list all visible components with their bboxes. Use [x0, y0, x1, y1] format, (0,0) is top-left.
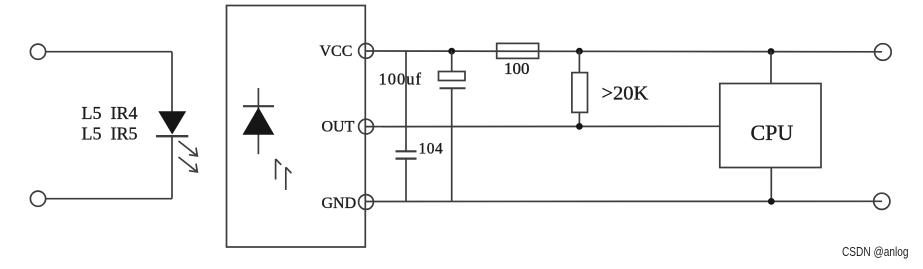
- light reception arrows of D2: [276, 159, 292, 190]
- wire CPU to GND rail: [770, 168, 772, 202]
- terminal J4 bottom-right: [874, 193, 890, 209]
- light emission arrows of D1: [179, 141, 198, 172]
- GND rail wire: [366, 200, 882, 202]
- junction dot at CPU/VCC: [768, 48, 775, 55]
- OUT rail wire: [366, 125, 720, 127]
- terminal J1 top-left: [30, 44, 45, 59]
- capacitor C1 100uf (electrolytic): [379, 51, 466, 201]
- junction dot at R2/VCC: [576, 48, 583, 55]
- wire LED anode (vertical): [171, 52, 173, 112]
- photodiode D2 inside module: [243, 88, 275, 154]
- pin GND: [322, 195, 374, 212]
- svg-text:L5 IR5: L5 IR5: [82, 124, 138, 144]
- svg-text:CSDN @anlog: CSDN @anlog: [842, 244, 909, 259]
- junction dot at R2/OUT: [576, 123, 583, 130]
- svg-text:VCC: VCC: [320, 43, 353, 60]
- svg-text:CPU: CPU: [751, 120, 794, 145]
- resistor R2 >20K: [572, 51, 649, 126]
- svg-text:100uf: 100uf: [379, 70, 423, 89]
- terminal J2 bottom-left: [30, 191, 45, 206]
- wire CPU to VCC rail: [770, 52, 772, 84]
- capacitor C2 104: [396, 141, 444, 202]
- svg-text:104: 104: [419, 141, 444, 158]
- wire J1 to LED branch (horizontal): [46, 51, 172, 53]
- junction dot at CPU/GND: [768, 198, 775, 205]
- pin OUT: [322, 119, 374, 136]
- LED D1 (IR emitter): [156, 111, 188, 136]
- svg-text:OUT: OUT: [322, 119, 355, 136]
- svg-text:GND: GND: [322, 195, 357, 212]
- junction dot at C1/VCC: [448, 48, 455, 55]
- receiver module U2 body: [227, 6, 366, 248]
- wire LED cathode down (vertical): [171, 136, 173, 199]
- resistor R1 100: [497, 43, 539, 78]
- svg-text:>20K: >20K: [602, 83, 649, 105]
- wire branch to C2 (x=406): [405, 51, 407, 151]
- svg-text:L5 IR4: L5 IR4: [82, 103, 138, 123]
- svg-text:100: 100: [504, 59, 530, 78]
- VCC rail wire: [366, 50, 882, 53]
- pin VCC: [320, 43, 374, 60]
- label L5 IR4 / L5 IR5: [82, 103, 138, 144]
- terminal J3 top-right: [875, 44, 892, 61]
- wire to J2 (horizontal): [46, 198, 172, 200]
- CPU U1: [720, 84, 821, 168]
